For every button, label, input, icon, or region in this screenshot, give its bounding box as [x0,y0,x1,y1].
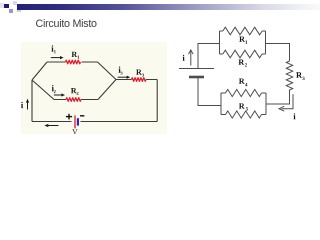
resistor R5 (right circuit zigzag) [226,111,262,118]
wire right vertical (left circuit) [156,80,158,122]
label R1 (left circuit) [72,52,80,59]
label V [72,129,77,134]
wire top block to right vertical [266,44,290,62]
wire left-loop hexagon top-left diagonal [32,62,47,80]
top parallel block right edge [265,31,267,54]
top branch wire stubs of lower block [221,92,266,94]
node B to R3 wire [116,79,157,81]
header square light lower [17,10,21,13]
battery plus sign [66,114,72,120]
label R4 (right circuit) [239,78,247,86]
battery minus sign [80,115,84,117]
battery V long electrode (red) [74,115,76,128]
lower parallel block left edge [220,93,222,115]
label R3 (right circuit) [296,72,304,80]
battery V short electrode (blue) [77,118,79,125]
label R2 (left circuit) [71,88,79,95]
label R3 (left circuit) [136,69,144,76]
wire top branch horizontal [47,61,98,63]
label R1 (right circuit) [239,36,247,43]
label i2 with arrow [52,85,65,97]
resistor R3 (left circuit, red zigzag) [132,78,146,82]
label i1 with arrow [51,45,64,59]
label i (total current) with up arrow [21,99,29,110]
wire top-right diagonal [98,62,117,80]
bottom branch wire stubs of lower block [221,114,266,116]
resistor R4 (right circuit zigzag) [226,89,262,96]
header square pale upper [13,1,17,5]
resistor R1 (left circuit, red zigzag) [66,60,81,64]
wire battery bottom to lower block [198,78,221,106]
resistor R2 (right circuit zigzag) [223,50,262,58]
bottom current arrow (left circuit) [44,124,58,127]
wire bottom-left diagonal [32,80,54,100]
resistor R3 (right circuit vertical zigzag) [286,61,292,90]
top branch wire stubs [220,30,266,32]
battery short electrode (right circuit) [189,76,204,79]
current annotation arrow bottom right [279,94,293,111]
header square pale left [0,3,4,8]
header square periwinkle [9,9,13,13]
left circuit image cream background [21,42,167,134]
bottom branch wire stubs of top block [220,53,266,55]
wire bottom-right diagonal [98,80,116,100]
header square dark navy [4,4,9,9]
resistor R1 (right circuit zigzag) [223,27,262,35]
wire right vertical down to lower block [266,90,290,104]
wire battery top to parallel block [198,44,220,69]
title: Circuito Misto [36,18,97,30]
top parallel block left edge [219,31,221,54]
label i with up arrow (right circuit left side) [183,50,194,66]
label R2 (right circuit) [239,60,247,67]
resistor R2 (left circuit, red zigzag) [66,98,81,102]
label i3 with arrow [118,66,131,78]
wire bottom (left circuit) [32,121,157,123]
wire bottom branch horizontal [54,99,98,101]
lower parallel block right edge [265,93,267,115]
header gradient bar [17,4,320,10]
label R5 (right circuit) [239,103,248,110]
wire left vertical (left circuit) [31,80,33,122]
battery long electrode (right circuit) [179,68,214,70]
label i (right circuit bottom) [293,113,295,119]
